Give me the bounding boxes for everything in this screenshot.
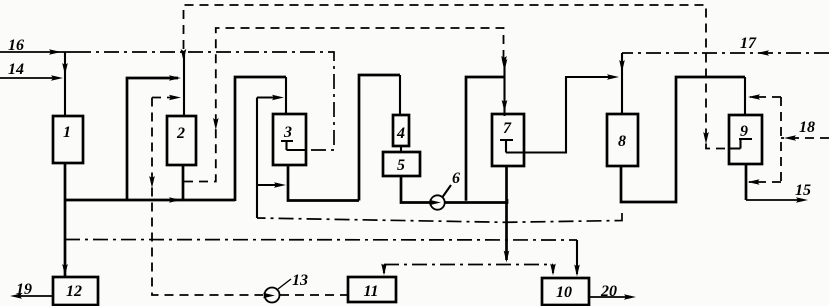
svg-text:13: 13 bbox=[292, 272, 308, 289]
wire box7 bottom outlet riser down to bus F bbox=[504, 166, 510, 263]
svg-text:17: 17 bbox=[740, 35, 757, 52]
wire bus F stub into box10 bbox=[550, 264, 556, 276]
wire box3 level tap internal bbox=[281, 141, 306, 150]
wire box2 feed vertical bbox=[183, 52, 185, 116]
wire dashed line D3 (to circle 13 and box 11) bbox=[149, 95, 275, 299]
wire dash-dot bus F bbox=[384, 264, 553, 266]
leader line 13 bbox=[278, 279, 291, 289]
svg-text:12: 12 bbox=[66, 283, 82, 300]
wire dashed line D1 (top long dashed) bbox=[181, 5, 729, 149]
wire box7 level tap to box8 bbox=[500, 74, 619, 152]
wire box3 feed vertical bbox=[285, 77, 287, 114]
wire dashed box9 right loops + 18 bbox=[748, 94, 829, 185]
svg-text:3: 3 bbox=[283, 124, 292, 141]
wire 17 feed vertical into box8 bbox=[619, 53, 625, 114]
pump circle 6 bbox=[430, 195, 444, 209]
wire box9 bottom outlet to 15 bbox=[746, 164, 808, 203]
wire box9 feed vertical bbox=[744, 77, 746, 115]
block 2 bbox=[167, 116, 196, 165]
svg-text:10: 10 bbox=[556, 284, 572, 301]
wire bus A (boxes 1-2 bottom header) bbox=[64, 197, 235, 203]
block 1 bbox=[53, 116, 83, 163]
wire box2 bottom outlet bbox=[182, 165, 185, 201]
wire riser from bus C feeding box 3 bbox=[257, 95, 286, 218]
wire box1 outlet down to box12 bbox=[62, 163, 68, 276]
wire bus F stub into box11 bbox=[381, 264, 387, 276]
wire stream 14 line bbox=[0, 75, 63, 81]
wire box8 bottom loop to box9 top bbox=[621, 77, 745, 202]
wire box2 loop riser bbox=[127, 75, 181, 201]
wire box4 feed vertical bbox=[399, 75, 401, 115]
wire box7 loop riser bbox=[466, 77, 504, 201]
svg-text:7: 7 bbox=[503, 120, 512, 137]
svg-text:16: 16 bbox=[8, 37, 24, 54]
block 3 bbox=[273, 114, 306, 165]
svg-text:9: 9 bbox=[740, 123, 748, 140]
svg-text:6: 6 bbox=[452, 170, 460, 187]
svg-text:2: 2 bbox=[176, 125, 185, 142]
pump circle 13 bbox=[265, 288, 280, 303]
wire bus E corner down into box10 bbox=[574, 240, 580, 277]
wire box3 loop riser bbox=[235, 77, 286, 201]
block 7 bbox=[492, 114, 524, 166]
svg-text:8: 8 bbox=[618, 133, 626, 150]
block 4 bbox=[393, 115, 409, 146]
svg-text:20: 20 bbox=[600, 283, 617, 300]
svg-text:18: 18 bbox=[799, 119, 815, 136]
wire box5 outlet + bus B right segment bbox=[401, 176, 430, 203]
svg-text:14: 14 bbox=[8, 61, 24, 78]
wire dash-dot bus E bbox=[65, 239, 577, 242]
block 12 bbox=[53, 277, 98, 305]
wire box7 feed vertical bbox=[502, 59, 508, 116]
wire dash-dot bus C bbox=[257, 213, 622, 222]
wire box4 loop riser bbox=[359, 75, 400, 201]
wire stream 17 dash-dot from right bbox=[622, 50, 829, 56]
svg-text:1: 1 bbox=[63, 124, 71, 141]
block 5 bbox=[383, 152, 420, 176]
wire stream 16 solid left part bbox=[0, 49, 76, 55]
block 10 bbox=[542, 278, 589, 305]
wire box12 outlet to 19 bbox=[10, 293, 53, 299]
svg-text:4: 4 bbox=[396, 125, 405, 142]
wire stream 16 dash-dot run to box 3 bbox=[76, 52, 334, 150]
block 11 bbox=[348, 277, 396, 302]
wire dashed from circle 13 to box 11 bbox=[280, 294, 348, 296]
wire box3 bottom outlet + bus B left segment bbox=[288, 165, 359, 201]
wire bus B continues to box7 downline bbox=[445, 199, 507, 203]
leader line 6 bbox=[443, 185, 452, 197]
block 9 bbox=[729, 115, 762, 164]
wire box4-box5 link bbox=[400, 146, 402, 152]
block 8 bbox=[607, 114, 638, 166]
wire box1 feed vertical bbox=[62, 52, 68, 116]
wire box10 outlet to 20 bbox=[589, 294, 636, 300]
svg-text:15: 15 bbox=[795, 182, 811, 199]
svg-text:19: 19 bbox=[16, 281, 32, 298]
wire box9 level tap internal bbox=[729, 139, 752, 149]
svg-text:5: 5 bbox=[397, 157, 405, 174]
svg-text:11: 11 bbox=[363, 283, 378, 300]
wire dashed line D2 (second dashed) bbox=[184, 28, 507, 182]
